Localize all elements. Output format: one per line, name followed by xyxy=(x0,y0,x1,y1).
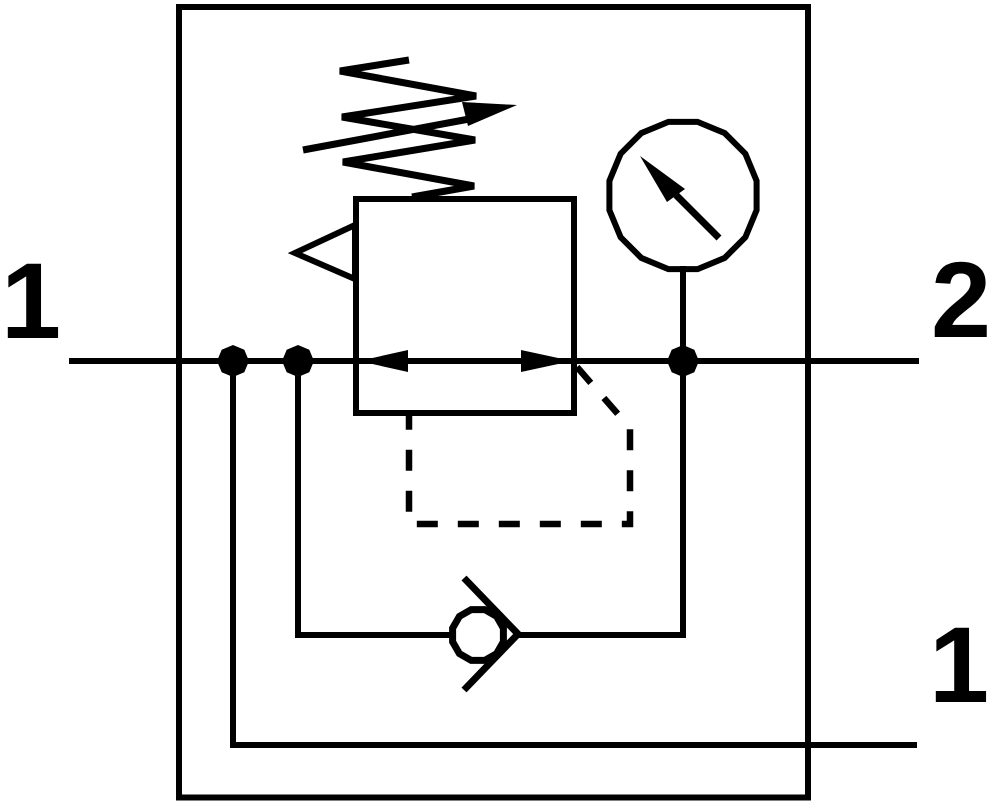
flow arrowhead pointing left (inside valve body) xyxy=(359,350,408,372)
adjustment arrow head xyxy=(462,102,517,126)
pilot line (dashed) from valve corner to sensing loop xyxy=(409,367,630,524)
wire: bypass bottom right segment from check valve xyxy=(518,632,686,638)
junction dot middle (node at x=298) xyxy=(282,345,314,377)
junction dot right (node at x=683) xyxy=(667,345,699,377)
svg-text:2: 2 xyxy=(931,239,991,360)
enclosure outline (component box) xyxy=(179,7,808,798)
gauge needle shaft xyxy=(676,195,719,238)
wire: vertical drop from left dot xyxy=(230,361,236,748)
spring (zigzag) above valve body xyxy=(340,60,476,197)
regulator valve body (square) xyxy=(356,199,574,413)
wire: right branch up to right dot xyxy=(680,361,686,638)
svg-text:1: 1 xyxy=(929,604,989,725)
wire: bypass bottom left segment to check valve xyxy=(295,632,450,638)
check valve ball (circle) xyxy=(453,610,504,661)
pressure gauge circle xyxy=(609,122,756,269)
flow arrowhead pointing right (inside valve body) xyxy=(521,350,572,372)
junction dot left (node at x=233) xyxy=(217,345,249,377)
wire: left branch down from middle dot xyxy=(295,361,301,638)
check valve seat (V) xyxy=(464,578,518,690)
wire: bottom line to port 1 (bottom right) xyxy=(230,742,917,748)
adjustment arrow shaft (crossing the spring) xyxy=(303,117,480,150)
wire: main flow line port 1 to port 2 xyxy=(69,358,919,364)
svg-text:1: 1 xyxy=(1,240,61,361)
wire: gauge to main line xyxy=(680,266,686,361)
gauge needle head xyxy=(640,156,685,202)
pilot triangle on left of valve body xyxy=(295,225,355,279)
